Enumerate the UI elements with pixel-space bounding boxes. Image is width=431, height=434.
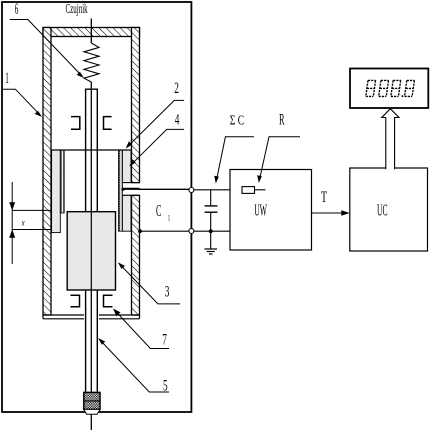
svg-text:UW: UW (254, 200, 267, 219)
svg-text:1: 1 (5, 69, 9, 87)
svg-text:R: R (279, 110, 285, 128)
svg-text:2: 2 (174, 78, 179, 96)
svg-text:C: C (156, 200, 161, 219)
svg-text:3: 3 (165, 282, 170, 300)
svg-text:T: T (321, 188, 327, 206)
svg-text:x: x (21, 218, 25, 228)
svg-text:1: 1 (168, 214, 170, 222)
svg-text:UC: UC (377, 200, 388, 219)
svg-text:Czujnik: Czujnik (66, 2, 88, 17)
svg-text:Σ C: Σ C (230, 111, 244, 127)
svg-text:4: 4 (175, 110, 180, 128)
svg-text:7: 7 (162, 330, 167, 348)
svg-text:5: 5 (163, 376, 168, 394)
svg-text:6: 6 (15, 0, 19, 18)
